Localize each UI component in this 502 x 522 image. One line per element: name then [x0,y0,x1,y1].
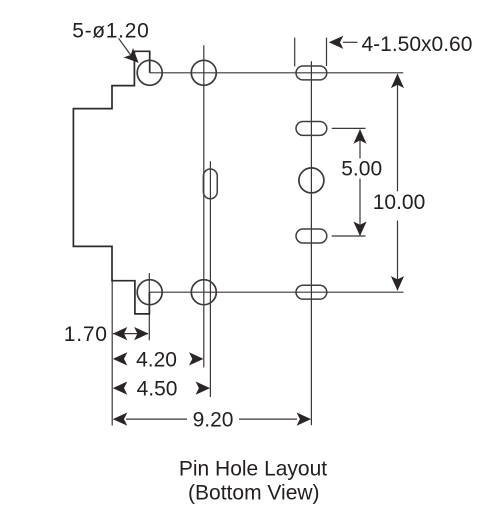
arrowhead: 1.70 left [113,327,128,340]
arrowhead: 5.00 down [353,222,366,237]
wire: left extension line [111,279,113,426]
svg-text:9.20: 9.20 [193,409,234,432]
svg-text:(Bottom View): (Bottom View) [188,482,320,505]
arrowhead: 4.50 right [196,382,211,395]
svg-text:5.00: 5.00 [341,157,382,180]
arrowhead: 9.20 right [297,413,312,426]
wire: top hole row centerline [150,72,404,74]
body outline [73,51,149,314]
arrowhead: leader 4-1.50x0.60 pointing left [329,36,344,49]
wire: leader line for 5-dia1.20 [119,38,131,55]
arrowhead: 4.20 left [113,352,128,365]
hole A3: circle bottom-left [137,280,162,305]
wire: extension line first column bottom [148,273,150,340]
slot S2: oblong second right [296,121,327,135]
svg-text:4.20: 4.20 [136,348,177,371]
hole A1: circle top-left [137,60,162,85]
slot S3: oblong third right [296,229,327,243]
slot S1: oblong top right [296,66,327,80]
wire: 9.20 dimension line right [239,418,297,420]
wire: column centerline 4.20 [203,45,205,367]
svg-text:5-ø1.20: 5-ø1.20 [72,19,149,42]
wire: 10.00 dimension line upper [397,74,399,191]
wire: right column centerline 9.20 [310,61,312,425]
wire: 5.00 extension bottom [332,235,366,237]
wire: column line 4.50 [209,161,211,397]
hole A5: circle right column middle [299,168,324,193]
wire: 10.00 dimension line lower [397,221,399,291]
svg-text:1.70: 1.70 [64,323,108,346]
arrowhead: 10.00 down [391,276,404,291]
arrowhead: 9.20 left [113,413,128,426]
svg-text:4-1.50x0.60: 4-1.50x0.60 [362,33,473,56]
slot S4: oblong bottom right [296,285,327,299]
wire: 5.00 dimension line upper [359,130,361,159]
hole A4: circle bottom second column [191,280,216,305]
arrowhead: leader 5-dia1.20 pointing lower-right [124,48,144,68]
svg-text:Pin Hole Layout: Pin Hole Layout [179,457,327,480]
wire: 5.00 extension top [332,127,366,129]
wire: 9.20 dimension line left [126,418,187,420]
arrowhead: 4.20 right [189,352,204,365]
arrowhead: 1.70 right [134,327,149,340]
wire: 5.00 dimension line lower [359,179,361,236]
arrowhead: 10.00 up [391,74,404,89]
wire: slot width extension left [294,38,296,67]
wire: leader line for 4-1.50x0.60 [343,41,358,43]
arrowhead: 4.50 left [113,382,128,395]
wire: 1.70 dimension line [113,333,148,335]
wire: slot width extension right [326,38,328,66]
wire: bottom hole row centerline [149,291,403,293]
svg-text:10.00: 10.00 [373,191,426,214]
hole A2: circle top second column [191,60,216,85]
arrowhead: 5.00 up [353,129,366,144]
svg-text:4.50: 4.50 [137,378,178,401]
slot S5: vertical oblong center [203,169,217,199]
